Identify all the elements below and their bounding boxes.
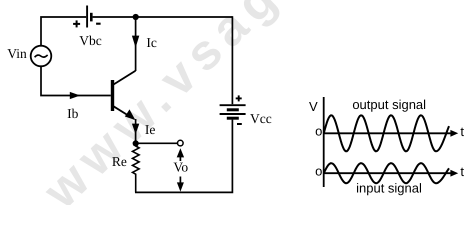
label + (Vbc positive) xyxy=(73,20,80,27)
wire: emitter wire down to junction xyxy=(135,119,137,143)
wire: collector wire from top rail junction xyxy=(135,17,137,71)
svg-text:output signal: output signal xyxy=(352,97,426,112)
ac source Vin xyxy=(31,46,52,67)
svg-text:Ic: Ic xyxy=(146,35,157,50)
current arrow Ib xyxy=(70,92,80,99)
svg-text:Ie: Ie xyxy=(145,122,156,137)
label - (Vcc negative) xyxy=(237,123,242,125)
node: emitter junction xyxy=(133,140,139,146)
svg-text:Re: Re xyxy=(112,154,127,169)
battery V1 (Vbc) xyxy=(87,6,91,28)
svg-text:o: o xyxy=(315,163,322,178)
voltage arrow Vo (up) xyxy=(177,148,184,161)
wire: right rail down to Vcc battery xyxy=(231,16,233,104)
svg-text:Vo: Vo xyxy=(173,159,188,174)
axis t (output) xyxy=(324,130,459,137)
transistor Q1 (NPN) xyxy=(111,71,136,120)
axis t (input) xyxy=(324,170,459,177)
svg-text:o: o xyxy=(315,124,322,139)
svg-text:input signal: input signal xyxy=(356,180,422,195)
wire: Vin top lead to Vbc battery xyxy=(41,17,86,46)
label - (Vbc negative) xyxy=(96,23,101,25)
input signal waveform xyxy=(324,163,449,183)
axis V (graph vertical axis) xyxy=(323,97,325,187)
wire: top rail from Vbc to right rail corner xyxy=(93,16,233,18)
svg-text:Vin: Vin xyxy=(7,46,27,61)
svg-text:t: t xyxy=(460,124,464,139)
svg-text:V: V xyxy=(309,99,318,114)
wire: output tap from emitter junction xyxy=(136,142,178,144)
svg-text:Vcc: Vcc xyxy=(250,111,272,126)
wire: Vin bottom lead to transistor base xyxy=(41,66,111,95)
label + (Vcc positive) xyxy=(236,95,242,101)
current arrow Ic xyxy=(132,36,139,48)
current arrow Ie xyxy=(132,124,139,135)
wire: bottom rail to Vcc negative xyxy=(135,120,232,193)
battery V2 (Vcc) xyxy=(220,105,246,118)
svg-text:t: t xyxy=(460,164,464,179)
svg-text:Ib: Ib xyxy=(67,106,78,121)
node: collector junction on top rail xyxy=(133,14,139,20)
resistor Re xyxy=(133,143,140,192)
terminal Vo (open circle) xyxy=(178,140,184,146)
voltage arrow Vo (down) xyxy=(177,177,184,192)
output signal waveform xyxy=(324,115,449,151)
svg-text:Vbc: Vbc xyxy=(79,33,102,48)
